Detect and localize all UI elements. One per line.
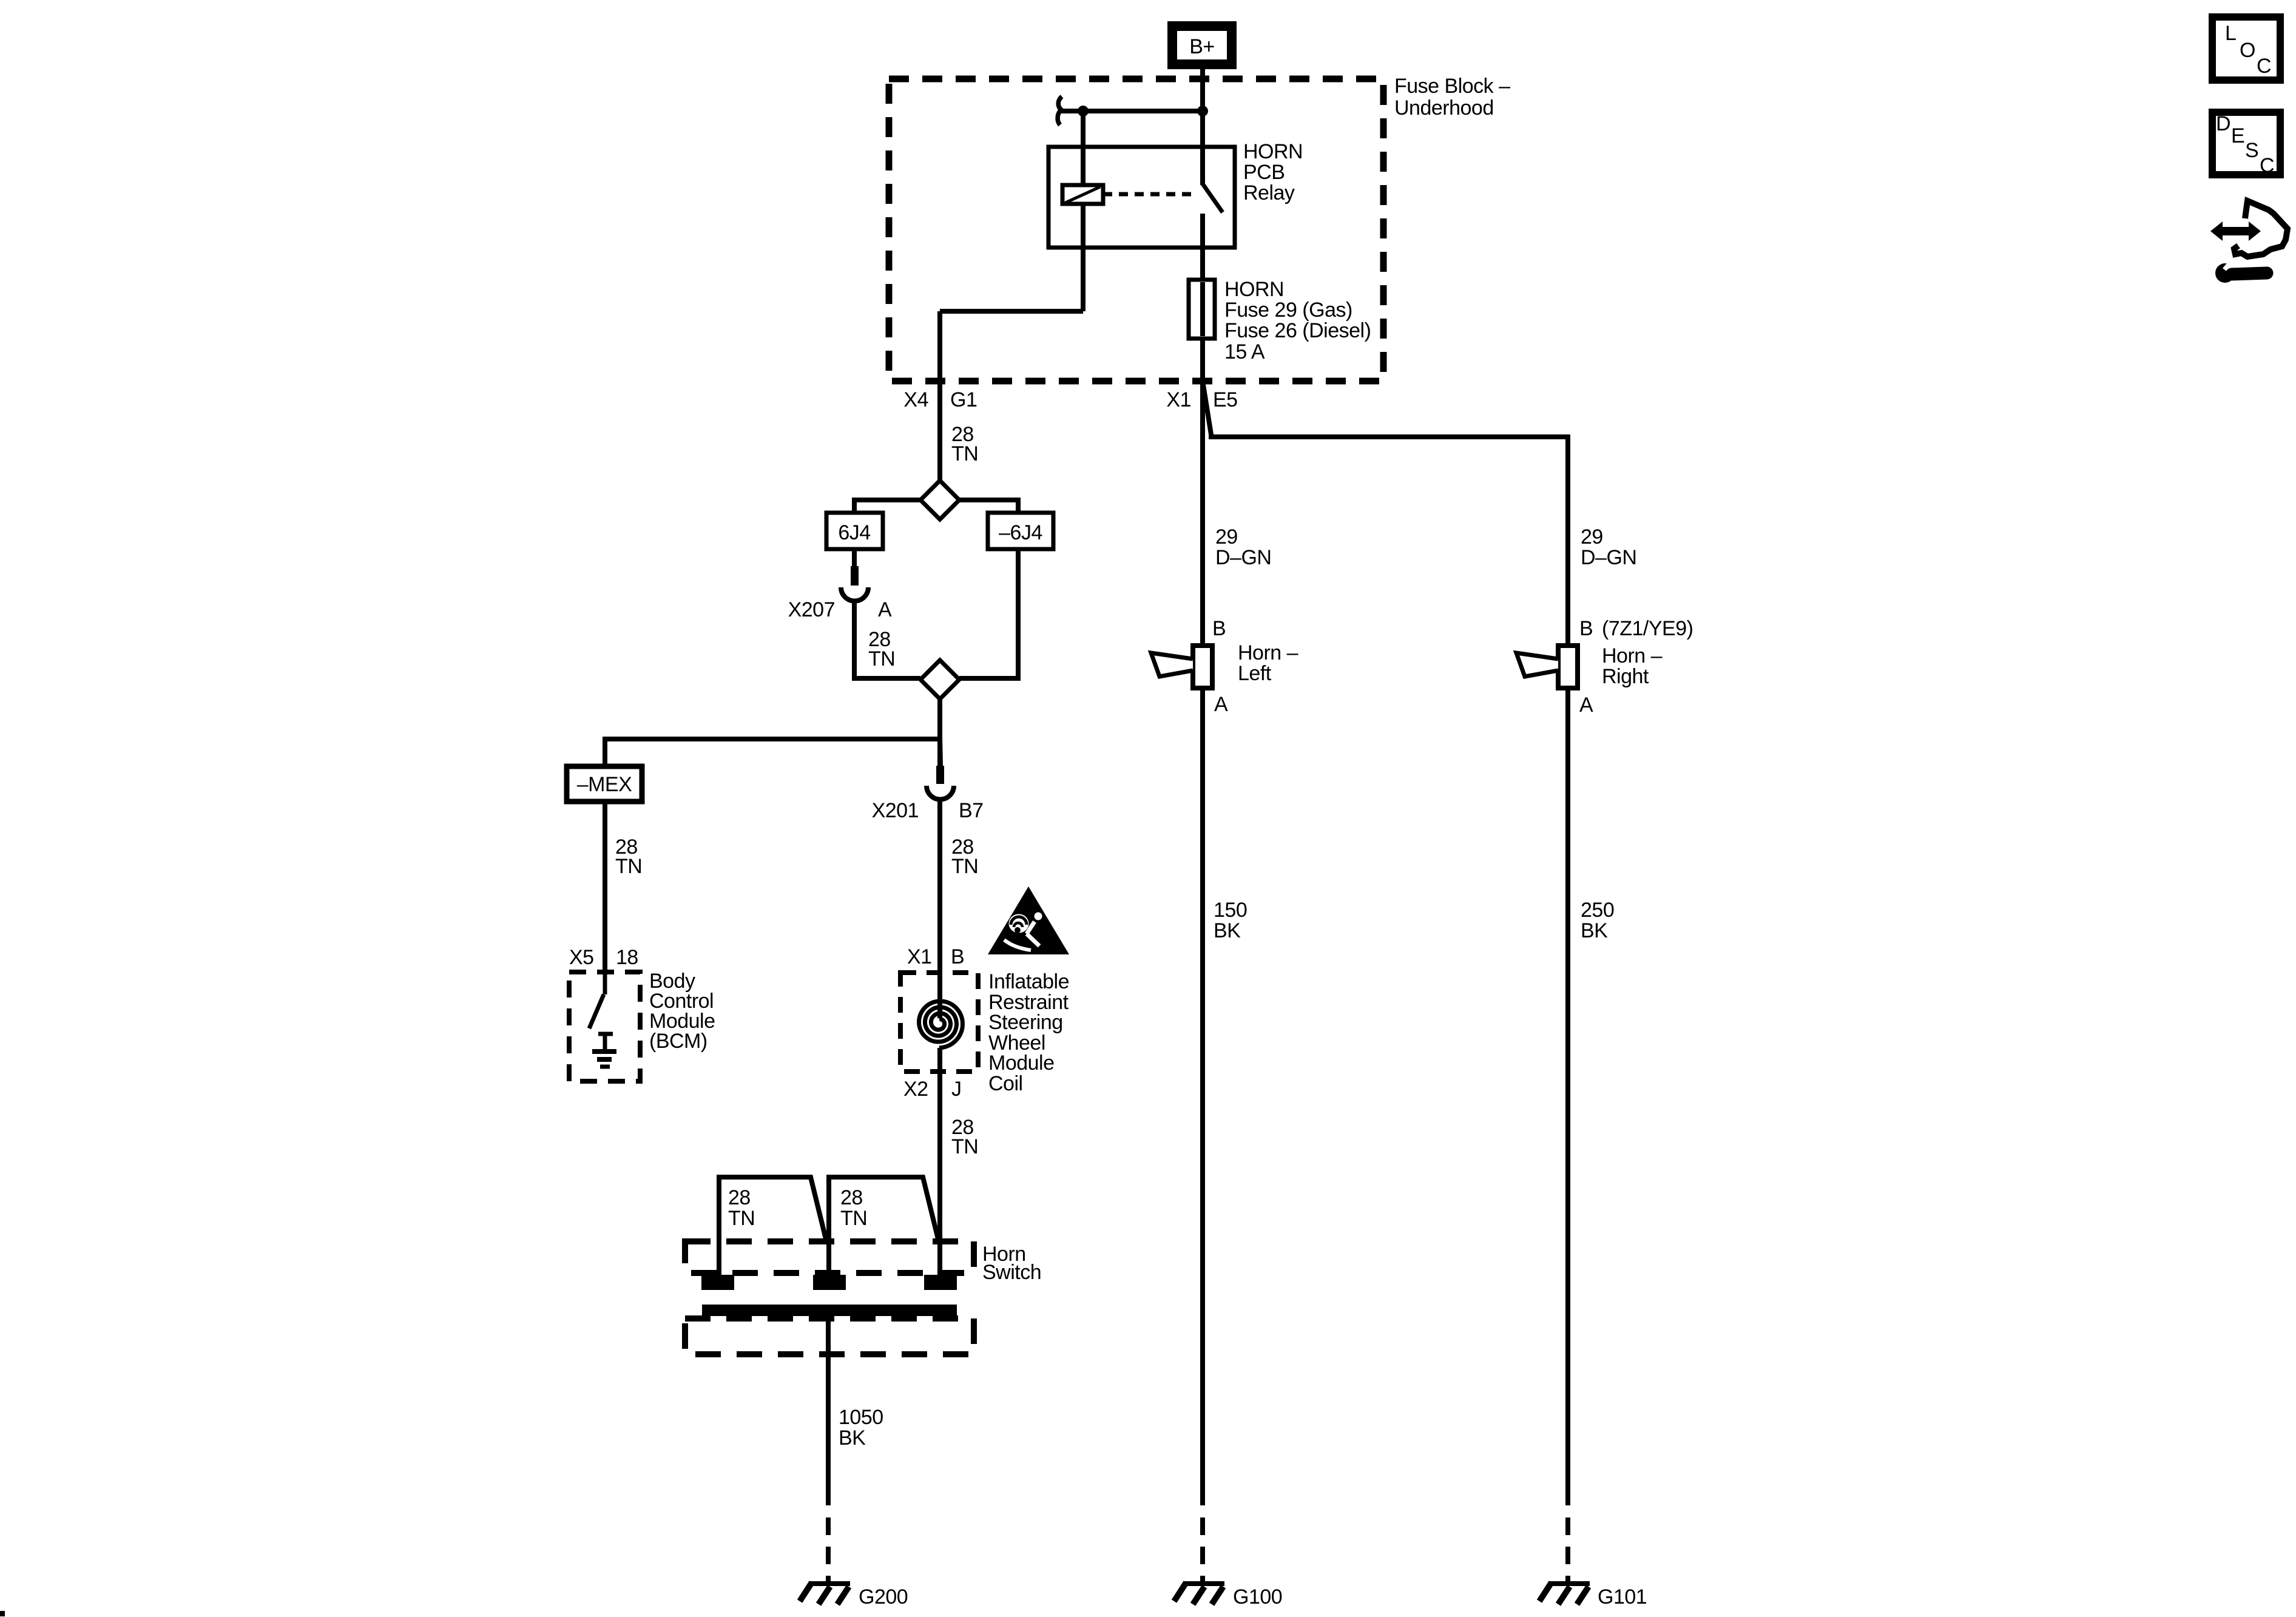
BCM internal switch lower contact — [598, 1034, 613, 1050]
horn left body — [1193, 646, 1212, 688]
svg-text:Left: Left — [1238, 662, 1272, 685]
wire label 28 TN — [840, 1186, 867, 1230]
svg-text:29: 29 — [1215, 525, 1238, 549]
ground G101 — [1539, 1582, 1590, 1604]
relay K-HORN box outline — [1048, 147, 1235, 248]
net tag -MEX — [567, 766, 642, 802]
wire lower splice down to connector X201 — [937, 699, 942, 766]
svg-text:TN: TN — [951, 1135, 978, 1158]
svg-text:G101: G101 — [1598, 1585, 1647, 1609]
svg-text:HORN: HORN — [1243, 140, 1303, 163]
wire X4 exit down to upper splice — [937, 391, 942, 481]
wire label 1050 BK (circuit 1050 black) — [839, 1406, 883, 1450]
legend LOC box — [2212, 17, 2280, 80]
svg-text:Relay: Relay — [1243, 181, 1295, 204]
svg-text:B7: B7 — [959, 799, 984, 822]
wire label 28 TN — [951, 1116, 978, 1158]
svg-text:X1: X1 — [907, 945, 932, 968]
wire branch 2 to horn switch contact — [829, 1177, 939, 1241]
wire horn right to G101 — [1565, 688, 1570, 1505]
svg-text:Coil: Coil — [988, 1072, 1023, 1095]
label HORN Fuse 29 (Gas) Fuse 26 (Diesel) 15 A — [1224, 278, 1371, 363]
svg-text:250: 250 — [1581, 899, 1614, 922]
svg-text:1050: 1050 — [839, 1406, 883, 1429]
ground (earth) symbol inside BCM — [592, 1052, 616, 1067]
wire label 28 TN — [868, 628, 895, 670]
wire dashed lead to G100 — [1200, 1517, 1205, 1584]
svg-text:Fuse 29 (Gas): Fuse 29 (Gas) — [1224, 299, 1352, 322]
svg-text:S: S — [2245, 139, 2258, 162]
splice diamond upper — [920, 481, 959, 519]
svg-text:E: E — [2231, 124, 2244, 147]
connector X207 male pin — [851, 566, 859, 586]
svg-text:X5: X5 — [569, 946, 594, 969]
svg-text:–MEX: –MEX — [577, 773, 632, 796]
wire splice to 6J4 — [854, 500, 920, 513]
wire dashed lead to G101 — [1565, 1517, 1570, 1584]
wire label 28 TN — [615, 836, 642, 878]
label Inflatable Restraint Steering Wheel Module Coil — [988, 970, 1069, 1095]
svg-text:E5: E5 — [1213, 388, 1238, 411]
svg-text:TN: TN — [615, 855, 642, 878]
svg-text:L: L — [2225, 22, 2236, 45]
svg-text:B: B — [1212, 617, 1226, 640]
svg-text:B+: B+ — [1189, 35, 1215, 58]
wire relay switch output — [1200, 214, 1205, 280]
svg-text:Fuse Block –: Fuse Block – — [1394, 75, 1510, 98]
connector X201 female socket — [927, 786, 954, 800]
wire fuse output down to Horn Left — [1200, 381, 1205, 646]
svg-text:Steering: Steering — [988, 1011, 1063, 1034]
wire label 28 TN — [951, 836, 978, 878]
svg-text:D: D — [2216, 112, 2230, 135]
legend service icon component outline — [2234, 201, 2288, 257]
SRS airbag caution triangle — [988, 886, 1069, 954]
SRS coil dashed enclosure — [900, 973, 978, 1072]
svg-text:X201: X201 — [872, 799, 919, 822]
svg-text:29: 29 — [1581, 525, 1603, 549]
wire junction horizontal feed inside fuse block — [1060, 109, 1203, 113]
splice diamond lower — [920, 660, 959, 699]
label Fuse Block - Underhood — [1394, 75, 1510, 120]
svg-text:Module: Module — [988, 1052, 1055, 1075]
wire horn switch to G200 — [826, 1316, 831, 1505]
svg-text:O: O — [2240, 39, 2255, 62]
legend service icon wrench — [2215, 259, 2267, 283]
horn switch fixed contact pad 2 — [813, 1275, 846, 1290]
fuse F-HORN body — [1189, 280, 1215, 339]
relay actuation dashed linkage — [1103, 192, 1198, 197]
svg-text:150: 150 — [1214, 899, 1247, 922]
svg-text:28: 28 — [728, 1186, 751, 1209]
stray page mark bottom-left — [0, 1611, 5, 1616]
wire branch 2 lower stub — [826, 1241, 831, 1275]
svg-text:X1: X1 — [1166, 388, 1191, 411]
svg-text:TN: TN — [951, 855, 978, 878]
horn left bell — [1151, 653, 1193, 677]
legend DESC box — [2212, 112, 2280, 177]
svg-text:(7Z1/YE9): (7Z1/YE9) — [1602, 617, 1693, 640]
relay switch blade — [1203, 184, 1223, 212]
svg-text:15 A: 15 A — [1224, 340, 1265, 363]
wire label 28 TN (circuit 28 tan) — [951, 423, 978, 465]
horn right bell — [1516, 653, 1558, 677]
svg-text:Horn –: Horn – — [1602, 644, 1663, 667]
label HORN PCB Relay — [1243, 140, 1303, 204]
ground G100 — [1174, 1582, 1224, 1604]
connector X207 female socket — [841, 587, 868, 601]
svg-text:Fuse 26 (Diesel): Fuse 26 (Diesel) — [1224, 319, 1371, 342]
svg-text:C: C — [2260, 154, 2274, 177]
horn switch dashed enclosure lower — [685, 1318, 974, 1354]
wire -6J4 down to lower splice — [959, 549, 1018, 678]
B+ battery feed terminal — [1172, 26, 1232, 64]
svg-text:X2: X2 — [903, 1078, 928, 1101]
wire dashed lead to G200 — [826, 1517, 831, 1584]
wire coil down to horn switch — [937, 1048, 942, 1177]
connector X201 male pin — [936, 737, 944, 784]
svg-text:G100: G100 — [1233, 1585, 1282, 1609]
wire branch across to -MEX — [605, 739, 940, 766]
svg-text:Switch: Switch — [982, 1261, 1041, 1284]
net tag 6J4 — [826, 513, 883, 549]
svg-text:BK: BK — [1581, 919, 1608, 942]
svg-text:Right: Right — [1602, 665, 1649, 688]
wire from B+ down to junction node — [1200, 69, 1205, 111]
svg-text:A: A — [878, 598, 892, 621]
wire label 29 D-GN (circuit 29 dark green) — [1215, 525, 1271, 569]
svg-text:(BCM): (BCM) — [649, 1030, 707, 1053]
wire down to fuse block border at X4 G1 — [937, 311, 942, 391]
wire main feed into horn switch — [937, 1177, 942, 1275]
horn right body — [1558, 646, 1578, 688]
svg-text:A: A — [1579, 694, 1593, 717]
wire junction to relay switch contact — [1200, 111, 1205, 185]
horn switch movable contact bar — [702, 1305, 957, 1316]
svg-text:TN: TN — [868, 647, 895, 670]
svg-text:C: C — [2257, 55, 2271, 78]
svg-text:TN: TN — [840, 1207, 867, 1230]
svg-text:PCB: PCB — [1243, 161, 1285, 184]
fuse block - underhood dashed enclosure — [889, 79, 1383, 381]
wire label 29 D-GN — [1581, 525, 1636, 569]
wire E5 branch across to Horn Right — [1203, 381, 1568, 646]
label Horn Switch — [982, 1243, 1041, 1284]
node junction dot (relay switch tap) — [1197, 106, 1208, 116]
svg-text:B: B — [951, 945, 964, 968]
wire junction to relay coil — [1081, 111, 1086, 185]
horn switch fixed contact pad 1 — [701, 1275, 734, 1290]
relay coil element — [1062, 185, 1103, 204]
svg-text:TN: TN — [951, 442, 978, 465]
horn switch S-HORN dashed enclosure upper — [685, 1241, 974, 1273]
BCM dashed enclosure — [569, 972, 640, 1081]
svg-text:Inflatable: Inflatable — [988, 970, 1069, 993]
BCM internal switch upper stub — [603, 972, 607, 994]
wire X207 down to lower splice — [854, 601, 920, 678]
svg-text:X207: X207 — [788, 598, 835, 621]
svg-text:G200: G200 — [859, 1585, 908, 1609]
net tag -6J4 — [988, 513, 1053, 549]
BCM internal switch blade — [589, 994, 604, 1028]
svg-text:18: 18 — [616, 946, 638, 969]
svg-text:BK: BK — [839, 1426, 866, 1450]
wire X201 down into SRS coil — [937, 799, 942, 1018]
wire relay coil low side — [1081, 204, 1086, 311]
wire label 250 BK — [1581, 899, 1614, 942]
label Body Control Module (BCM) — [649, 970, 715, 1053]
wire label 28 TN — [728, 1186, 755, 1230]
node junction dot (relay coil tap) — [1078, 106, 1089, 116]
label Horn - Right — [1602, 644, 1663, 688]
svg-text:Underhood: Underhood — [1394, 96, 1494, 120]
ground G200 — [800, 1582, 850, 1604]
SRS clockspring coil spiral — [919, 1001, 963, 1048]
wire label 150 BK — [1214, 899, 1247, 942]
svg-text:D–GN: D–GN — [1581, 546, 1636, 569]
svg-text:J: J — [951, 1078, 962, 1101]
continuation hook symbol at left end of feed wire — [1058, 96, 1062, 125]
svg-text:6J4: 6J4 — [838, 521, 870, 544]
wire splice to -6J4 — [959, 500, 1018, 513]
horn switch fixed contact pad 3 — [924, 1275, 957, 1290]
svg-text:X4: X4 — [903, 388, 928, 411]
svg-text:B: B — [1579, 617, 1593, 640]
label Horn - Left — [1238, 641, 1298, 685]
wire horn left to G100 — [1200, 688, 1205, 1505]
wire across to X4 G1 exit — [940, 309, 1083, 314]
svg-text:HORN: HORN — [1224, 278, 1284, 301]
wire through HORN fuse — [1200, 280, 1205, 381]
wire 6J4 down to connector X207 — [852, 549, 857, 566]
svg-text:TN: TN — [728, 1207, 755, 1230]
wire -MEX down to BCM — [603, 802, 607, 972]
svg-text:A: A — [1214, 693, 1228, 716]
svg-text:BK: BK — [1214, 919, 1241, 942]
svg-text:G1: G1 — [950, 388, 977, 411]
svg-text:–6J4: –6J4 — [999, 521, 1042, 544]
svg-text:D–GN: D–GN — [1215, 546, 1271, 569]
wire branch 1 to horn switch contact — [719, 1177, 826, 1275]
svg-text:Horn –: Horn – — [1238, 641, 1298, 664]
legend service icon double arrow — [2210, 221, 2261, 241]
svg-text:28: 28 — [840, 1186, 863, 1209]
